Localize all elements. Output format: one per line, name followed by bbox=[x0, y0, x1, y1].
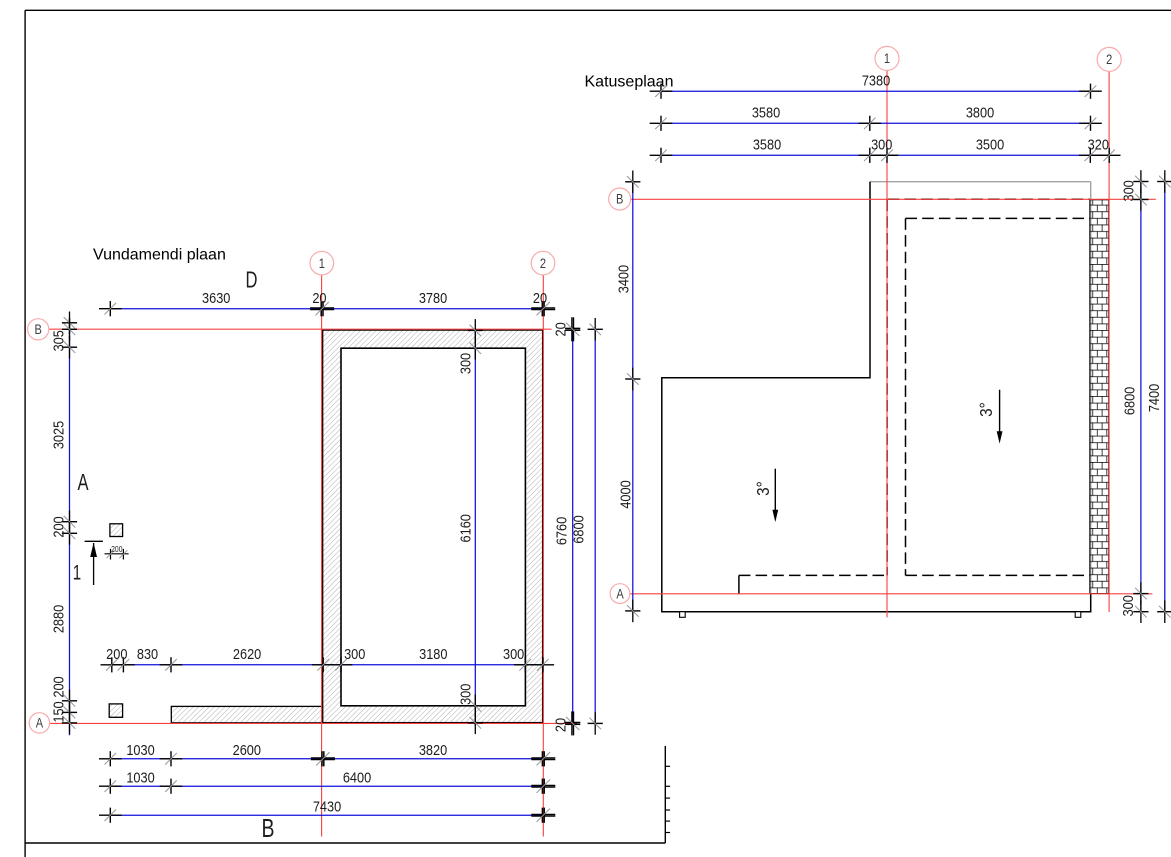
svg-text:4000: 4000 bbox=[616, 480, 633, 509]
sheet frame bottom edge bbox=[25, 842, 665, 844]
grid bubble A (roof) bbox=[610, 584, 630, 604]
svg-text:200: 200 bbox=[49, 676, 66, 697]
svg-text:300: 300 bbox=[344, 645, 365, 662]
tick row2 end bbox=[531, 779, 555, 794]
tick 2880 end bbox=[62, 690, 77, 713]
foundation footing strip bottom-left bbox=[171, 706, 322, 722]
tick r3 d bbox=[1079, 148, 1102, 163]
sheet frame left edge bbox=[24, 10, 26, 857]
svg-text:3025: 3025 bbox=[49, 421, 66, 450]
svg-text:3180: 3180 bbox=[419, 645, 448, 662]
downpipe square left bbox=[680, 612, 686, 618]
svg-text:A: A bbox=[77, 470, 89, 495]
tick 6800 bottom bbox=[588, 712, 603, 735]
tick 3180 end bbox=[514, 657, 537, 672]
slope arrow right shaft bbox=[999, 390, 1001, 432]
svg-text:1030: 1030 bbox=[126, 769, 155, 786]
svg-text:3580: 3580 bbox=[753, 135, 782, 152]
grid line A (roof) bbox=[631, 593, 1153, 595]
dashed wall outer top bbox=[887, 198, 1090, 200]
svg-text:3780: 3780 bbox=[419, 289, 448, 306]
tick 830 end bbox=[160, 657, 183, 672]
tick 300t end bbox=[468, 337, 483, 360]
tick at A bbox=[62, 712, 77, 735]
section arrow bar bbox=[85, 540, 103, 542]
dim line 3580/3800 bbox=[661, 122, 1091, 124]
tick r2 right bbox=[1079, 116, 1102, 131]
svg-text:7380: 7380 bbox=[862, 71, 891, 88]
tick rr1 c bbox=[1133, 582, 1148, 605]
title block left edge bbox=[664, 746, 666, 843]
pier square lower bbox=[109, 704, 122, 717]
dim line inner chain (foundation) bbox=[112, 664, 543, 666]
tick rr1 b bbox=[1133, 188, 1148, 211]
svg-text:6400: 6400 bbox=[343, 769, 372, 786]
tick rr2 b bbox=[1157, 600, 1171, 623]
tick 300i end bbox=[330, 657, 353, 672]
tick row1 1030 start bbox=[99, 751, 122, 766]
svg-text:305: 305 bbox=[49, 330, 66, 351]
svg-text:200: 200 bbox=[111, 544, 122, 554]
svg-text:3800: 3800 bbox=[966, 103, 995, 120]
roof outline (black) bbox=[662, 182, 1091, 612]
dim line 7400 bbox=[1164, 182, 1166, 612]
svg-text:150: 150 bbox=[49, 701, 66, 722]
tick 200i start bbox=[101, 657, 124, 672]
small dim line 200 bbox=[105, 553, 129, 555]
svg-text:D: D bbox=[246, 268, 258, 293]
tick r3 c bbox=[876, 148, 899, 163]
svg-text:20: 20 bbox=[533, 289, 547, 306]
tick roof left bottom bbox=[625, 600, 640, 623]
dim line inner vertical (foundation) bbox=[474, 330, 476, 726]
brick wall strip bbox=[1090, 200, 1109, 594]
svg-text:2880: 2880 bbox=[49, 605, 66, 634]
svg-text:20: 20 bbox=[551, 718, 568, 732]
svg-text:300: 300 bbox=[503, 645, 524, 662]
svg-text:320: 320 bbox=[1088, 135, 1109, 152]
svg-text:3400: 3400 bbox=[615, 265, 632, 294]
grid bubble B (foundation) bbox=[28, 319, 49, 340]
svg-text:3820: 3820 bbox=[419, 741, 448, 758]
tick row2 1030 end bbox=[160, 779, 183, 794]
tick row1 1030 end bbox=[160, 751, 183, 766]
tick 3630 left bbox=[99, 301, 122, 316]
svg-text:7430: 7430 bbox=[313, 798, 342, 815]
roof top edge (gray) bbox=[870, 181, 1091, 183]
svg-text:B: B bbox=[261, 813, 274, 842]
title block tick marks bbox=[665, 766, 670, 832]
sheet frame top edge bbox=[25, 9, 1171, 11]
grid bubble 1 (foundation) bbox=[310, 251, 334, 275]
svg-text:1: 1 bbox=[73, 560, 81, 584]
tick r3 e bbox=[1098, 148, 1121, 163]
tick row2 start bbox=[99, 779, 122, 794]
dim line 7380 bbox=[661, 90, 1091, 92]
tick 200b end bbox=[62, 701, 77, 724]
grid line 2 (foundation) bbox=[542, 275, 544, 837]
svg-text:20: 20 bbox=[551, 322, 568, 336]
tick rr2 a bbox=[1157, 170, 1171, 193]
tick row3 start bbox=[99, 808, 122, 823]
svg-text:B: B bbox=[35, 322, 42, 337]
grid bubble 1 (roof) bbox=[875, 46, 899, 70]
tick 200 end bbox=[62, 522, 77, 545]
roof right edge (gray) bbox=[1090, 182, 1092, 612]
svg-text:300: 300 bbox=[456, 683, 473, 704]
grid bubble A (foundation) bbox=[29, 713, 49, 733]
svg-text:3630: 3630 bbox=[202, 289, 231, 306]
svg-text:200: 200 bbox=[106, 645, 127, 662]
section arrow head bbox=[90, 543, 97, 557]
tick 200i end bbox=[112, 657, 135, 672]
tick roof left mid bbox=[625, 368, 640, 391]
tick rr1 a bbox=[1133, 170, 1148, 193]
tick row1 grid1 bbox=[311, 751, 335, 766]
tick 2620 end bbox=[312, 657, 335, 672]
tick 6800 top bbox=[588, 318, 603, 341]
tick left chain top bbox=[62, 312, 77, 335]
tick roof left top bbox=[625, 171, 640, 194]
tick row1 grid2 bbox=[531, 751, 555, 766]
dashed wall inner top bbox=[906, 217, 1090, 219]
tick r2 mid bbox=[859, 116, 882, 131]
dashed wall outer left bbox=[886, 200, 888, 576]
grid bubble B (roof) bbox=[609, 188, 631, 210]
tick 300b end bbox=[468, 712, 483, 735]
svg-text:2600: 2600 bbox=[233, 741, 262, 758]
svg-text:6800: 6800 bbox=[1120, 386, 1137, 415]
small tick right bbox=[119, 549, 127, 560]
tick rr1 d bbox=[1133, 600, 1148, 623]
tick at B bbox=[62, 318, 77, 341]
tick row3 end bbox=[531, 808, 555, 823]
tick r2 left bbox=[650, 116, 673, 131]
grid line 1 (foundation) bbox=[321, 275, 323, 837]
svg-text:2: 2 bbox=[1106, 52, 1112, 67]
dashed wall step down bbox=[738, 575, 740, 594]
svg-text:3500: 3500 bbox=[976, 135, 1005, 152]
svg-text:2620: 2620 bbox=[233, 645, 262, 662]
tick grid1 top (bold) bbox=[310, 301, 334, 316]
tick r3 b bbox=[859, 148, 882, 163]
svg-text:6760: 6760 bbox=[552, 517, 569, 546]
dashed wall bottom left part bbox=[739, 574, 887, 576]
svg-text:830: 830 bbox=[137, 645, 158, 662]
svg-text:Vundamendi plaan: Vundamendi plaan bbox=[93, 247, 226, 264]
tick 7380 right bbox=[1079, 84, 1102, 99]
dim line bottom row2 (foundation) bbox=[110, 785, 543, 787]
tick 305 end bbox=[62, 336, 77, 359]
svg-text:7400: 7400 bbox=[1145, 384, 1162, 413]
svg-text:A: A bbox=[616, 586, 624, 601]
svg-text:3°: 3° bbox=[976, 402, 996, 417]
small tick left bbox=[107, 549, 115, 560]
svg-text:300: 300 bbox=[1119, 595, 1136, 616]
tick 6160 end bbox=[468, 695, 483, 718]
svg-text:300: 300 bbox=[456, 353, 473, 374]
grid line 2 (roof) bbox=[1108, 71, 1110, 612]
dim line 3580/300/3500/320 bbox=[661, 154, 1109, 156]
svg-text:20: 20 bbox=[312, 289, 326, 306]
svg-text:1: 1 bbox=[884, 51, 890, 66]
tick 300i2 end bbox=[532, 657, 555, 672]
dim line 300/6800/300 bbox=[1140, 182, 1142, 612]
tick 6760 bottom bbox=[565, 711, 580, 735]
svg-text:2: 2 bbox=[540, 256, 546, 271]
slope arrow left head bbox=[772, 510, 778, 522]
tick 6760 top bbox=[565, 317, 580, 341]
svg-text:1030: 1030 bbox=[126, 741, 155, 758]
grid bubble 2 (roof) bbox=[1097, 47, 1121, 71]
dim line left chain (foundation) bbox=[69, 318, 71, 735]
grid line 1 (roof) bbox=[886, 70, 888, 617]
dashed wall inner left bbox=[905, 218, 907, 575]
tick 7380 left bbox=[650, 84, 673, 99]
svg-text:6800: 6800 bbox=[569, 515, 586, 544]
svg-text:Katuseplaan: Katuseplaan bbox=[585, 73, 674, 90]
svg-text:3°: 3° bbox=[753, 481, 773, 496]
grid line B (foundation) bbox=[49, 328, 552, 330]
tick grid2 top (bold) bbox=[531, 301, 555, 316]
svg-text:A: A bbox=[36, 716, 44, 731]
slope arrow right head bbox=[997, 431, 1003, 443]
svg-text:3580: 3580 bbox=[752, 103, 781, 120]
tick 300t start bbox=[468, 319, 483, 342]
grid line B (roof) bbox=[631, 198, 1156, 200]
dim line 3400/4000 bbox=[632, 182, 634, 612]
dim line bottom row3 (foundation) bbox=[110, 814, 543, 816]
svg-text:300: 300 bbox=[871, 135, 892, 152]
grid bubble 2 (foundation) bbox=[531, 251, 555, 275]
section arrow shaft bbox=[93, 543, 95, 585]
dim line 6800 (foundation right) bbox=[594, 329, 596, 723]
slope arrow left shaft bbox=[774, 469, 776, 511]
foundation inner room bbox=[341, 348, 525, 706]
svg-text:200: 200 bbox=[49, 516, 66, 537]
dim line bottom row1 (foundation) bbox=[110, 758, 543, 760]
dim line 6760 (foundation right) bbox=[572, 329, 574, 723]
dashed wall bottom right part bbox=[906, 574, 1090, 576]
dim line top chain (foundation) bbox=[110, 308, 543, 310]
svg-text:300: 300 bbox=[1120, 180, 1137, 201]
downpipe square right bbox=[1075, 612, 1081, 618]
foundation outer wall with hatch bbox=[323, 330, 543, 723]
grid line A (foundation) bbox=[49, 722, 577, 724]
svg-text:B: B bbox=[616, 192, 623, 207]
tick r3 a bbox=[650, 148, 673, 163]
svg-text:1: 1 bbox=[319, 256, 325, 271]
svg-text:6160: 6160 bbox=[456, 514, 473, 543]
tick 3025 end bbox=[62, 510, 77, 533]
pier square upper bbox=[110, 524, 123, 537]
